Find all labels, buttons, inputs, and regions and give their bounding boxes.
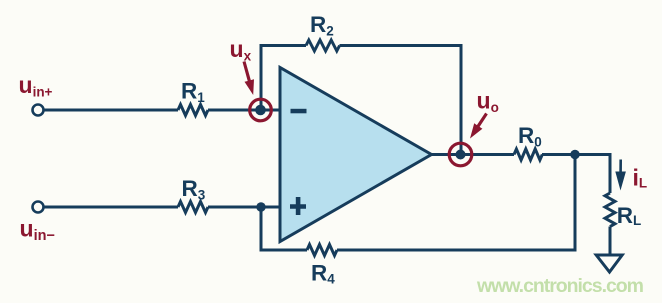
arrow iL (615, 160, 626, 191)
resistor R1 (178, 105, 208, 116)
svg-text:R3: R3 (182, 176, 206, 202)
svg-text:R0: R0 (518, 123, 542, 149)
arrow u_o (470, 113, 488, 139)
wire R1 to op-amp inverting input (208, 109, 280, 112)
resistor R4 (307, 245, 337, 256)
op-amp U1 (280, 68, 432, 242)
svg-text:uin+: uin+ (19, 72, 53, 100)
wire R0 to load branch (542, 155, 610, 194)
wire node u_x up to feedback top (261, 46, 306, 111)
terminal u_in+ (33, 105, 44, 116)
ground (596, 255, 622, 272)
node u_o (449, 143, 472, 166)
svg-text:R1: R1 (181, 78, 205, 104)
resistor RL (605, 193, 615, 227)
svg-text:uin−: uin− (20, 215, 55, 244)
resistor R0 (514, 149, 542, 160)
svg-text:R2: R2 (310, 12, 334, 38)
op-amp inverting input marker (-) (291, 109, 307, 114)
wire op-amp output to R0 (432, 153, 515, 156)
wire RL to ground (609, 227, 612, 256)
resistor R2 (306, 40, 340, 51)
terminal u_in- (33, 202, 44, 213)
svg-text:ux: ux (230, 36, 252, 64)
svg-text:uo: uo (477, 88, 499, 116)
wire junction down to R4 (261, 207, 307, 250)
wire R3 to op-amp non-inverting input (208, 206, 280, 209)
arrow u_x (243, 61, 255, 95)
junction output-load node (570, 150, 579, 159)
resistor R3 (178, 202, 208, 213)
svg-text:iL: iL (633, 165, 648, 191)
svg-text:www.cntronics.com: www.cntronics.com (476, 275, 644, 297)
node u_x (250, 99, 272, 121)
svg-text:R4: R4 (311, 260, 335, 286)
svg-text:RL: RL (617, 203, 642, 228)
op-amp non-inverting input marker (+) (290, 197, 306, 215)
junction non-inverting input node (256, 202, 265, 211)
wire R2 to output node (340, 46, 462, 155)
wire u_in- to R3 (45, 206, 179, 209)
wire u_in+ to R1 (45, 109, 179, 112)
wire R4 to output junction (337, 155, 575, 251)
